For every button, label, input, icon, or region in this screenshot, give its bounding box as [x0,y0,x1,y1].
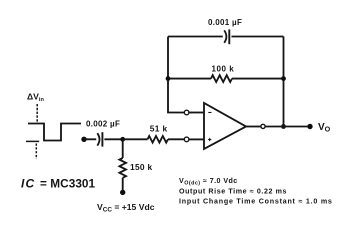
op-amp MC3301 triangle [204,103,246,149]
svg-text:0.001 µF: 0.001 µF [208,18,242,27]
junction: output node [281,124,286,129]
label VO [318,122,331,134]
svg-text:VO: VO [318,122,331,134]
op-amp non-inverting input terminal circle [184,137,189,142]
resistor 51 k [123,136,185,143]
junction: 100k left node [166,76,171,81]
node: VCC terminal dot [120,190,125,195]
svg-text:= MC3301: = MC3301 [40,177,96,191]
wire: top feedback branch horizontal [168,36,284,38]
wire: non-inverting input lead [189,138,204,140]
resistor 100 k [168,75,284,82]
junction: 100k right node [281,76,286,81]
junction: bias node [120,137,125,142]
capacitor 0.002 uF [97,132,102,146]
svg-text:ΔVin: ΔVin [27,92,44,104]
label 0.002 uF [86,119,120,128]
label 150 k [130,162,153,172]
svg-text:VCC = +15 Vdc: VCC = +15 Vdc [97,202,155,214]
label dVin [27,92,44,104]
wire: right vertical of feedback loop [283,37,285,127]
wire: input dot to coupling cap [84,138,96,140]
svg-text:0.002 µF: 0.002 µF [86,119,120,128]
resistor 150 k [119,139,126,190]
wire: cap to junction [104,138,122,140]
node: input terminal dot [81,137,86,142]
svg-text:IC: IC [21,177,35,191]
label 0.001 uF [208,18,242,27]
svg-text:Input Change Time Constant ≈ 1: Input Change Time Constant ≈ 1.0 ms [179,198,333,206]
label 100 k [212,65,235,74]
op-amp output terminal circle [261,124,265,128]
capacitor 0.001 uF [224,29,229,44]
label VCC = +15 Vdc [97,202,155,214]
wire: op-amp output to circle [246,126,261,128]
input step waveform dVin [26,104,81,159]
svg-text:150 k: 150 k [130,162,153,172]
wire: output run to VO [265,126,310,128]
svg-text:51 k: 51 k [150,124,168,134]
label 51 k [150,124,168,134]
wire: left vertical of feedback loop [168,37,184,113]
svg-text:Output Rise Time ≈ 0.22 ms: Output Rise Time ≈ 0.22 ms [179,187,287,195]
label IC = MC3301 [21,177,96,191]
node: VO terminal dot [307,124,312,129]
svg-text:100 k: 100 k [212,65,235,74]
svg-text:VO(dc) ≈ 7.0 Vdc: VO(dc) ≈ 7.0 Vdc [179,177,238,186]
wire: inverting input lead [189,112,204,114]
annotation text block [179,177,333,206]
op-amp inverting input terminal circle [184,110,189,115]
